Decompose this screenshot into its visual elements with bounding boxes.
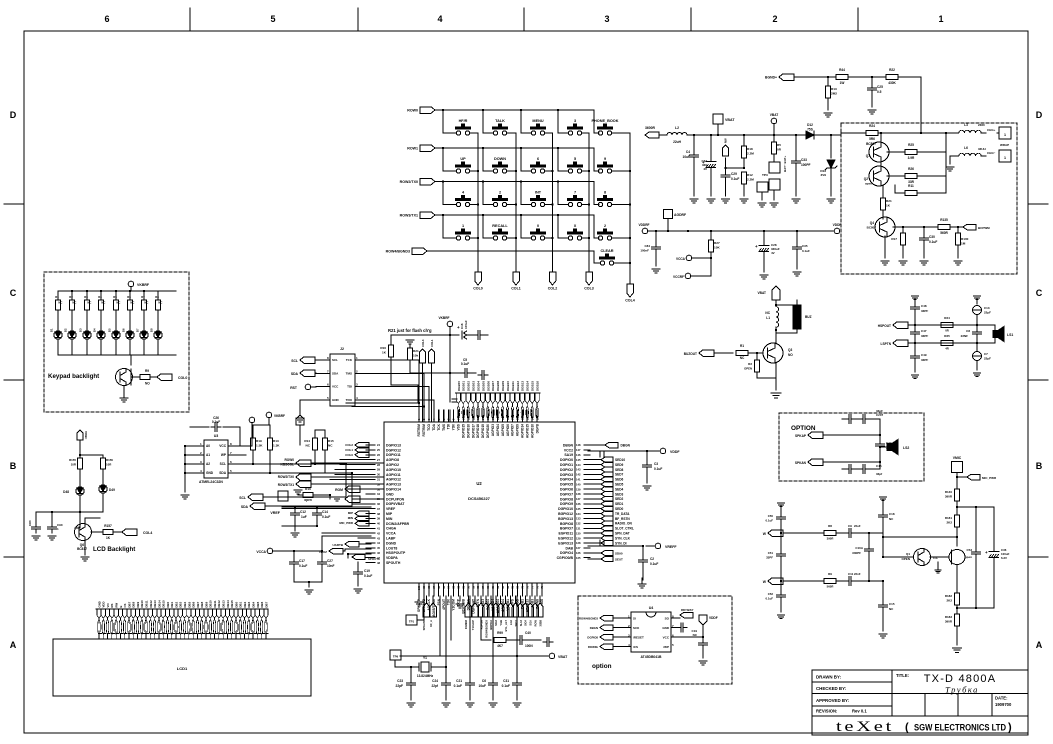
resistor R9 560R <box>824 579 836 584</box>
svg-text:22uF: 22uF <box>854 524 861 528</box>
svg-text:Y1: Y1 <box>423 656 427 660</box>
svg-text:D8: D8 <box>150 328 154 332</box>
svg-text:DGPIO18: DGPIO18 <box>476 424 480 438</box>
svg-text:2: 2 <box>604 224 606 228</box>
svg-text:1: 1 <box>938 14 943 24</box>
svg-text:NC: NC <box>87 301 91 305</box>
resistor R18 2.2M <box>743 135 745 146</box>
svg-text:TR_DATA: TR_DATA <box>615 512 630 516</box>
svg-text:VREF: VREF <box>270 511 280 515</box>
zener D13 3V9 <box>830 135 832 158</box>
svg-text:3: 3 <box>604 14 609 24</box>
terminal VKBRF keypad backlight <box>128 281 134 287</box>
svg-text:DGPB: DGPB <box>535 423 539 433</box>
LED D6 <box>129 310 131 331</box>
svg-text:NC: NC <box>101 301 105 305</box>
svg-text:5R6: 5R6 <box>869 137 875 141</box>
svg-text:0.1uF: 0.1uF <box>461 362 469 366</box>
svg-text:COL4: COL4 <box>625 299 635 303</box>
svg-text:DGPIO14: DGPIO14 <box>386 488 401 492</box>
capacitor C80 <box>35 512 37 524</box>
svg-text:VDDRF: VDDRF <box>639 223 650 227</box>
capacitor C4 10uF <box>693 135 695 152</box>
svg-text:AGPIO7: AGPIO7 <box>511 424 515 436</box>
svg-text:DGPIO2: DGPIO2 <box>560 468 573 472</box>
inductor L2 22uH <box>667 133 687 136</box>
microphone T1C <box>949 550 965 565</box>
svg-text:DGB04: DGB04 <box>476 381 480 391</box>
LCD1 module box <box>53 639 311 696</box>
capacitor C84 100nF <box>655 231 657 244</box>
svg-text:R99: R99 <box>497 631 503 635</box>
svg-text:C14: C14 <box>322 510 328 514</box>
resistor R156 10R <box>102 455 104 458</box>
svg-text:C7: C7 <box>984 352 988 356</box>
svg-text:WRAP: WRAP <box>1000 143 1009 147</box>
resistor R21 1K charger <box>882 185 884 198</box>
svg-text:/RESET: /RESET <box>633 636 644 640</box>
svg-text:A: A <box>1036 640 1043 650</box>
svg-text:R9: R9 <box>145 369 149 373</box>
svg-text:Q3: Q3 <box>788 348 792 352</box>
capacitor C33 100PF <box>795 135 797 158</box>
svg-text:NC: NC <box>116 301 120 305</box>
svg-text:25: 25 <box>377 448 380 452</box>
svg-text:34: 34 <box>377 492 380 496</box>
svg-text:VDDF: VDDF <box>709 616 718 620</box>
svg-text:C52: C52 <box>768 592 774 596</box>
svg-text:C29: C29 <box>731 172 737 176</box>
svg-text:C13: C13 <box>984 306 990 310</box>
svg-text:22pF: 22pF <box>396 684 403 688</box>
svg-text:0.1uF: 0.1uF <box>654 467 662 471</box>
svg-text:C11: C11 <box>848 572 854 576</box>
svg-text:CLEAR: CLEAR <box>600 249 613 253</box>
svg-text:/WP: /WP <box>663 645 669 649</box>
svg-text:C: C <box>1036 288 1043 298</box>
svg-text:LS1: LS1 <box>1007 333 1013 337</box>
svg-text:L1: L1 <box>766 316 770 320</box>
capacitor C47 33PF <box>914 325 916 329</box>
svg-text:COL4: COL4 <box>143 531 152 535</box>
port AGDRF <box>664 210 673 219</box>
speaker LS1 <box>994 325 996 331</box>
resistor R14 NC <box>314 430 316 438</box>
svg-text:DBGN: DBGN <box>563 443 574 447</box>
resistor R144 keypad backlight <box>115 291 117 300</box>
svg-text:DGPIO0: DGPIO0 <box>560 458 573 462</box>
svg-text:PHONE_BOOK: PHONE_BOOK <box>591 119 618 123</box>
svg-text:R7: R7 <box>141 295 145 299</box>
svg-text:RADIO_ON: RADIO_ON <box>615 522 633 526</box>
terminal VREFF <box>655 543 661 549</box>
svg-text:27: 27 <box>377 458 380 462</box>
svg-text:open: open <box>865 182 872 186</box>
capacitor C46 33pF <box>879 462 881 469</box>
connector COL1 vertical <box>429 349 435 363</box>
svg-text:open: open <box>304 498 312 502</box>
svg-text:EYL_ALT: EYL_ALT <box>504 620 508 632</box>
ground below U2 left <box>418 596 420 600</box>
svg-text:132: 132 <box>576 522 581 526</box>
svg-text:C9: C9 <box>848 524 852 528</box>
svg-text:R183: R183 <box>945 615 953 619</box>
svg-text:33UH: 33UH <box>978 147 986 151</box>
svg-text:HSPOUT: HSPOUT <box>878 324 891 328</box>
svg-text:SED2: SED2 <box>615 497 624 501</box>
connector SDA J2 <box>300 370 315 377</box>
svg-text:8: 8 <box>604 191 606 195</box>
capacitor C10A 330PF <box>868 534 870 546</box>
resistor R24 5R6 <box>866 131 878 136</box>
svg-text:CHECKED BY:: CHECKED BY: <box>816 686 847 691</box>
svg-text:330PF: 330PF <box>852 551 861 555</box>
svg-text:VDDPA: VDDPA <box>386 556 398 560</box>
svg-text:5: 5 <box>270 14 275 24</box>
svg-text:139: 139 <box>576 487 581 491</box>
svg-text:R100: R100 <box>961 237 969 241</box>
svg-text:TDI: TDI <box>447 424 451 429</box>
svg-text:VREFF: VREFF <box>665 545 677 549</box>
svg-text:R8: R8 <box>155 295 159 299</box>
svg-text:AGPIO16: AGPIO16 <box>530 424 534 438</box>
U2 bottom tag row <box>480 596 482 603</box>
resistor R12 2.2M <box>742 172 747 184</box>
svg-text:APPROVED BY:: APPROVED BY: <box>816 698 850 703</box>
svg-text:+: + <box>457 325 460 330</box>
U2 left pin tags <box>355 442 369 448</box>
svg-text:138: 138 <box>576 492 581 496</box>
svg-text:4POUT: 4POUT <box>442 599 446 610</box>
wire flash to chip <box>391 384 418 386</box>
svg-text:0.1uF: 0.1uF <box>502 684 510 688</box>
svg-text:VBAT: VBAT <box>558 655 568 659</box>
svg-text:146: 146 <box>576 453 581 457</box>
svg-text:1.3K: 1.3K <box>273 444 280 448</box>
svg-text:RECALL: RECALL <box>492 224 508 228</box>
svg-text:AGPIO14: AGPIO14 <box>521 424 525 438</box>
U2 bottom pins <box>418 583 420 596</box>
svg-text:35: 35 <box>377 497 380 501</box>
svg-text:0.1uF: 0.1uF <box>765 519 773 523</box>
svg-text:C48: C48 <box>921 304 927 308</box>
svg-text:33PF: 33PF <box>921 334 928 338</box>
svg-text:R21 just for flash ch'g: R21 just for flash ch'g <box>388 328 432 333</box>
svg-text:R4: R4 <box>98 295 102 299</box>
svg-text:U2: U2 <box>476 481 482 486</box>
svg-text:1M: 1M <box>961 242 966 246</box>
connector DBGN <box>600 625 613 631</box>
svg-text:D: D <box>1036 110 1043 120</box>
svg-text:SDA: SDA <box>241 505 249 509</box>
svg-text:126: 126 <box>576 551 581 555</box>
connector J2 <box>330 354 355 406</box>
svg-text:44: 44 <box>377 541 380 545</box>
svg-text:BC817: BC817 <box>77 547 87 551</box>
svg-text:VKBRF: VKBRF <box>439 316 450 320</box>
svg-text:C10A: C10A <box>855 546 864 550</box>
svg-text:C35: C35 <box>802 244 808 248</box>
svg-text:AGPIO15: AGPIO15 <box>525 424 529 438</box>
svg-text:C27: C27 <box>327 559 333 563</box>
wire VDDF <box>588 450 660 452</box>
svg-text:DGPIO7: DGPIO7 <box>560 492 573 496</box>
keypad backlight dashed box <box>44 272 189 412</box>
svg-text:VSS: VSS <box>457 423 461 430</box>
svg-text:Y2COM: Y2COM <box>452 599 456 611</box>
svg-text:390R: 390R <box>945 495 953 499</box>
svg-text:R21: R21 <box>886 199 892 203</box>
connector ROW4/BGND3 <box>600 615 613 621</box>
svg-text:0: 0 <box>537 224 539 228</box>
svg-text:2360: 2360 <box>978 123 985 127</box>
svg-text:100N: 100N <box>525 644 533 648</box>
svg-text:SGW ELECTRONICS LTD: SGW ELECTRONICS LTD <box>914 723 1006 734</box>
charger dashed box <box>841 123 1017 274</box>
resistor R26 33R <box>905 174 917 179</box>
svg-text:147: 147 <box>576 448 581 452</box>
svg-text:2: 2 <box>772 14 777 24</box>
svg-text:DGB13: DGB13 <box>521 381 525 391</box>
svg-text:VBAT: VBAT <box>725 118 735 122</box>
svg-text:C19: C19 <box>364 569 370 573</box>
svg-text:D1: D1 <box>50 328 54 332</box>
svg-text:SPKAP: SPKAP <box>795 434 807 438</box>
svg-text:R1: R1 <box>740 344 744 348</box>
svg-text:ROM: ROM <box>335 488 343 492</box>
svg-text:140: 140 <box>576 482 581 486</box>
resistor R143 keypad backlight <box>100 291 102 300</box>
port VBAT square <box>713 114 723 124</box>
U2 right pins <box>584 444 590 446</box>
svg-text:10R: 10R <box>106 463 112 467</box>
svg-text:DAB: DAB <box>566 546 574 550</box>
capacitor C51 33PF <box>780 533 782 551</box>
svg-text:TDI: TDI <box>347 385 352 389</box>
crystal Y1 13.824MHz <box>410 666 412 668</box>
svg-text:C17: C17 <box>299 559 305 563</box>
svg-text:COL2: COL2 <box>548 287 558 291</box>
svg-text:KBSCOL: KBSCOL <box>281 463 295 467</box>
svg-text:D: D <box>10 110 17 120</box>
resistor R27 10K <box>710 231 712 240</box>
svg-text:TP9: TP9 <box>393 655 399 659</box>
port VMIC <box>952 462 963 473</box>
svg-text:B: B <box>10 461 17 471</box>
svg-text:GND: GND <box>332 398 340 402</box>
svg-text:LOUT8: LOUT8 <box>386 546 397 550</box>
svg-text:R181: R181 <box>945 516 953 520</box>
capacitor C50 0.1 <box>777 502 784 504</box>
svg-text:37: 37 <box>377 507 380 511</box>
svg-text:TX-D 4800A: TX-D 4800A <box>924 673 997 685</box>
terminal VKBRF right <box>447 321 453 327</box>
svg-text:TMS: TMS <box>346 371 352 375</box>
svg-text:R44: R44 <box>839 68 845 72</box>
svg-text:C47: C47 <box>921 329 927 333</box>
svg-text:DGB05: DGB05 <box>481 381 485 391</box>
svg-text:TDA: TDA <box>432 423 436 430</box>
svg-text:R1: R1 <box>55 295 59 299</box>
svg-text:DGPIO1: DGPIO1 <box>560 463 573 467</box>
svg-text:SYN_DI: SYN_DI <box>615 541 627 545</box>
resistor R100 1M <box>957 227 959 233</box>
svg-text:1909700: 1909700 <box>995 702 1012 707</box>
svg-text:131: 131 <box>576 527 581 531</box>
svg-text:40: 40 <box>377 522 380 526</box>
svg-text:SDA: SDA <box>332 371 339 375</box>
svg-text:C18: C18 <box>889 512 895 516</box>
capacitor C53 open <box>975 507 977 549</box>
svg-text:INT: INT <box>535 191 542 195</box>
svg-text:B: B <box>1036 461 1043 471</box>
battery contact BAT+ <box>769 162 780 173</box>
connector BCPWM <box>958 226 963 228</box>
connector COL0 keypad backlight <box>157 374 172 381</box>
resistor R35 4R <box>941 341 953 346</box>
svg-text:38: 38 <box>377 512 380 516</box>
resistor R135 560R <box>938 225 950 230</box>
svg-text:100nF: 100nF <box>640 249 649 253</box>
svg-text:SED9: SED9 <box>615 463 624 467</box>
resistor R158 <box>132 376 140 378</box>
svg-text:100uF: 100uF <box>464 320 468 329</box>
svg-text:ROW: ROW <box>534 619 538 626</box>
svg-text:SED6: SED6 <box>615 478 624 482</box>
svg-text:4V: 4V <box>771 251 775 255</box>
IC U4 AT45DB041B <box>631 612 671 652</box>
svg-text:VDBF: VDBF <box>84 431 88 439</box>
svg-text:DGPIO4: DGPIO4 <box>560 551 573 555</box>
svg-text:R9: R9 <box>828 572 832 576</box>
svg-text:SA19: SA19 <box>564 453 573 457</box>
capacitor C49 33PF <box>914 343 916 353</box>
capacitor C13 22pF <box>973 295 980 297</box>
svg-text:COL3: COL3 <box>421 339 425 347</box>
svg-text:BGPIO12: BGPIO12 <box>558 512 573 516</box>
svg-text:DGB15: DGB15 <box>531 381 535 391</box>
svg-text:NC: NC <box>58 301 62 305</box>
svg-text:145: 145 <box>576 458 581 462</box>
svg-text:2.2M: 2.2M <box>747 178 754 182</box>
capacitor C17 0.1uF <box>293 551 295 559</box>
resistor R44 1W <box>836 75 848 80</box>
svg-text:AGPIO12: AGPIO12 <box>386 478 401 482</box>
svg-text:0.1uF: 0.1uF <box>212 420 220 424</box>
svg-text:BUZOUT: BUZOUT <box>684 352 697 356</box>
connector SEXT <box>588 558 601 560</box>
svg-text:560R: 560R <box>940 231 948 235</box>
U3 ground bus <box>184 446 186 492</box>
svg-text:R16: R16 <box>380 346 386 350</box>
svg-text:DGPIO8: DGPIO8 <box>587 636 598 640</box>
keypad row4 line ROW4/BGND3 <box>412 248 427 255</box>
svg-text:ROW3/TX1: ROW3/TX1 <box>400 213 418 217</box>
svg-text:135: 135 <box>576 507 581 511</box>
svg-text:D48: D48 <box>63 490 69 494</box>
svg-text:DGPIO13: DGPIO13 <box>386 443 401 447</box>
svg-text:C33: C33 <box>801 158 807 162</box>
LED D49 <box>99 485 107 493</box>
svg-text:A: A <box>10 640 17 650</box>
connector ROM <box>345 486 360 493</box>
wire VREF right <box>588 545 643 547</box>
svg-text:141: 141 <box>576 478 581 482</box>
svg-text:6.3V: 6.3V <box>1001 556 1007 560</box>
svg-text:TITLE:: TITLE: <box>896 673 909 678</box>
svg-text:TD0: TD0 <box>447 599 451 605</box>
svg-text:R22: R22 <box>889 68 895 72</box>
svg-text:41: 41 <box>377 527 380 531</box>
wire SCL <box>228 463 346 465</box>
svg-text:RDY/BSY: RDY/BSY <box>681 608 694 612</box>
svg-text:DGPIO5: DGPIO5 <box>560 483 573 487</box>
svg-text:1: 1 <box>1004 156 1006 160</box>
svg-text:CGPIO0/B: CGPIO0/B <box>557 556 574 560</box>
svg-text:A1: A1 <box>206 453 210 457</box>
svg-text:C: C <box>10 288 17 298</box>
keypad row line ROW1 <box>420 145 435 152</box>
svg-text:NC: NC <box>306 444 311 448</box>
svg-text:L3: L3 <box>964 123 968 127</box>
svg-text:+: + <box>755 244 758 249</box>
capacitor C90 1uF <box>51 512 53 524</box>
svg-text:48: 48 <box>377 561 380 565</box>
svg-text:134: 134 <box>576 512 581 516</box>
svg-text:C25: C25 <box>877 85 883 89</box>
capacitor C2 0.1uF <box>642 546 644 557</box>
svg-text:Q2: Q2 <box>864 177 868 181</box>
svg-text:0.1uF: 0.1uF <box>731 177 739 181</box>
svg-text:R27: R27 <box>714 241 720 245</box>
transistor Q1 OPEN <box>914 549 931 566</box>
svg-text:C21: C21 <box>456 679 462 683</box>
svg-text:C50: C50 <box>768 514 774 518</box>
svg-text:TMS: TMS <box>442 423 446 431</box>
svg-text:SED0: SED0 <box>615 507 624 511</box>
svg-text:LS2: LS2 <box>903 446 909 450</box>
U4 VCC wire <box>671 636 703 638</box>
capacitor C48 33PF <box>911 295 918 297</box>
svg-text:YD0: YD0 <box>452 424 456 431</box>
capacitor C18 NC <box>879 496 886 498</box>
svg-text:COL0: COL0 <box>473 287 483 291</box>
svg-text:0.1uF: 0.1uF <box>454 684 462 688</box>
svg-text:DGPIO6: DGPIO6 <box>560 488 573 492</box>
svg-text:R5: R5 <box>777 143 781 147</box>
capacitor C6 10uF <box>492 596 494 680</box>
svg-text:GND: GND <box>386 492 394 496</box>
capacitor C30 0.1uF <box>923 227 925 235</box>
svg-text:D5: D5 <box>108 328 112 332</box>
svg-text:33pF: 33pF <box>876 409 883 413</box>
svg-text:VCCA: VCCA <box>676 257 686 261</box>
capacitor C8 22NF <box>976 325 978 329</box>
capacitor U4 gnd <box>671 627 678 629</box>
resistor R157 1K <box>84 518 86 524</box>
svg-text:128: 128 <box>576 541 581 545</box>
resistor R13 1.3K <box>269 425 271 438</box>
svg-text:VBAT: VBAT <box>758 291 766 295</box>
LED D48 <box>76 487 84 495</box>
wire HSSPOUT <box>347 553 349 555</box>
svg-text:R25: R25 <box>908 143 914 147</box>
svg-text:100: 100 <box>418 585 421 590</box>
svg-text:C30: C30 <box>929 235 935 239</box>
svg-text:SD90: SD90 <box>615 552 623 556</box>
U3 VCC wire <box>239 445 241 446</box>
svg-text:NC: NC <box>158 301 162 305</box>
